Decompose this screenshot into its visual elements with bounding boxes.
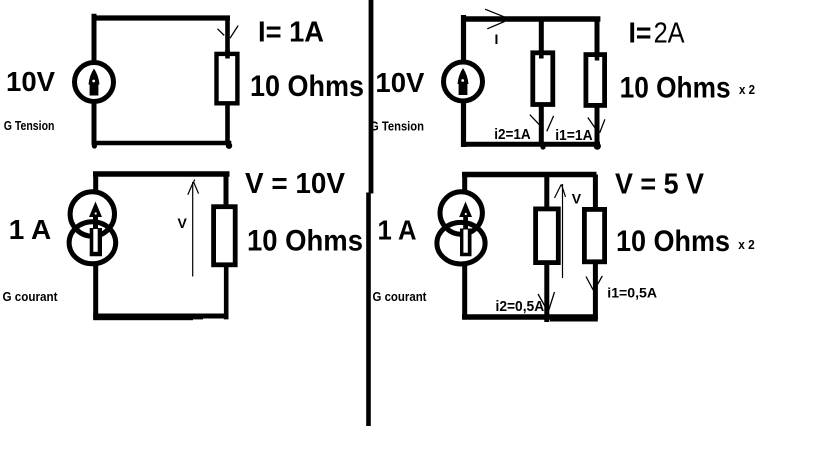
wire bottom left segment (BL loop) [93,314,228,319]
svg-text:V = 5 V: V = 5 V [615,169,705,201]
wire left lower (BL, source to bottom) [93,262,98,318]
wire bottom (TL loop) [92,141,232,146]
wire right branch lower (TR, R1 to bottom) [595,104,600,146]
svg-text:i2=0,5A: i2=0,5A [496,299,545,315]
wire bottom step bump (BL) [193,314,203,319]
current source I1 arrow [89,202,102,257]
resistor R1 (BR right) body [584,209,604,261]
svg-text:G courant: G courant [373,289,428,304]
svg-text:i1=1A: i1=1A [555,128,593,144]
wire right lower (TL, resistor to bottom) [225,104,230,145]
junction dot bottom-right (TL) [226,143,232,149]
current source I2 (1 A) upper circle [440,192,482,234]
wire top (BL loop) [93,171,230,177]
svg-text:I= 1A: I= 1A [258,17,324,49]
wire left upper (TR, corner to source) [461,15,466,62]
svg-text:10 Ohms: 10 Ohms [616,225,730,258]
wire right upper (BL, corner to resistor) [224,174,229,209]
current arrow i2 (TR, at R2 bottom) [530,115,554,132]
svg-text:10V: 10V [6,66,55,97]
svg-text:x 2: x 2 [738,238,755,252]
svg-text:I: I [495,31,499,47]
svg-text:10 Ohms: 10 Ohms [247,225,363,258]
voltage source V2 (10V) circle [444,62,483,101]
wire left upper (TL, top corner to source) [92,14,97,63]
svg-text:1 A: 1 A [378,215,417,246]
resistor R1 (TR) top lead notch [595,52,600,61]
voltage arrow head (BL) [188,180,199,195]
voltage arrow V (BR, thin vertical) [562,184,564,278]
wire top (TR loop) [461,16,600,21]
wire middle branch lower (TR, R2 to bottom) [539,104,544,146]
svg-text:G Tension: G Tension [4,118,55,133]
resistor R1 (TR right) body [586,55,605,106]
current source I1 (1 A) upper circle [70,192,114,236]
wire left lower (TR, source to bottom) [461,101,466,147]
wire right branch lower (BR, R1 to bottom) [593,263,598,319]
divider line lower segment [366,193,371,427]
current arrow i1 (TR, at R1 bottom) [588,118,605,133]
current source I2 (1 A) lower circle [437,222,485,264]
wire bottom lower jog (BR) [550,317,598,322]
resistor R (TL 10 Ohms) body [217,54,238,103]
resistor R2 (BR middle) body [536,209,559,263]
current arrow i2 (BR, at R2 bottom) [538,292,555,310]
voltage source V2 arrow white speck [461,79,464,82]
resistor R (TL) top lead notch [225,50,230,59]
wire bottom right segment (BL loop, slight step) [93,318,193,320]
voltage source V1 (10V) circle [75,63,114,102]
wire bottom (TR loop) [461,142,600,147]
svg-text:2A: 2A [654,17,686,49]
svg-text:V: V [572,191,582,207]
svg-text:x 2: x 2 [739,83,755,97]
junction dot bottom-left (TL) [92,143,97,148]
svg-text:i1=0,5A: i1=0,5A [607,285,657,301]
voltage source V2 arrow [458,68,469,95]
wire right lower (BL, resistor to bottom) [224,264,229,319]
junction dot bottom middle (TR) [540,144,545,149]
wire middle branch upper (BR, to resistor R2) [544,175,549,211]
svg-text:i2=1A: i2=1A [494,127,531,143]
svg-text:V = 10V: V = 10V [245,168,346,200]
voltage source V1 arrow white speck [92,80,95,83]
current source I2 arrow [459,202,472,257]
current source I1 (1 A) lower circle [69,222,116,264]
wire bottom (BR loop) [462,314,598,320]
voltage arrow V (BL, thin vertical) [192,182,194,277]
wire right branch upper (BR, to resistor R1) [593,175,598,212]
divider line between left and right halves [369,0,374,194]
svg-text:10V: 10V [375,67,424,98]
current arrow I on top wire (TR) [485,9,506,29]
resistor R2 (TR middle) body [533,53,553,105]
wire middle branch upper (TR, to resistor R2) [539,19,544,58]
junction dot bottom right (TR) [594,143,601,150]
wire right upper (TL, corner to resistor) [225,18,230,58]
wire left upper (BL, corner to source) [93,172,98,193]
resistor R2 (TR) top lead notch [539,50,544,59]
current direction arrow into resistor (TL) [218,26,239,39]
svg-text:10 Ohms: 10 Ohms [250,70,364,103]
wire left lower (TL, source to bottom) [92,101,97,145]
svg-text:G courant: G courant [3,289,59,304]
wire top (TL loop) [92,15,230,20]
svg-text:I=: I= [629,17,652,49]
voltage source V1 arrow [89,69,100,96]
voltage arrow head (BR) [555,185,566,199]
wire right branch upper (TR, to resistor R1) [595,19,600,60]
resistor R (BL 10 Ohms) body [214,207,236,265]
wire middle branch lower (BR, R2 through bottom wire) [544,262,549,322]
wire left upper (BR, corner to source) [462,172,467,191]
current source I1 arrow white slot [93,229,97,252]
current arrow i1 (BR, at R1 bottom) [586,276,602,291]
svg-text:G Tension: G Tension [370,119,424,134]
wire left lower (BR, source to bottom) [462,264,467,319]
svg-text:1 A: 1 A [9,214,52,245]
wire top (BR loop) [462,172,597,178]
svg-text:V: V [178,215,188,231]
svg-text:10 Ohms: 10 Ohms [620,72,731,105]
current source I2 arrow white slot [463,230,467,253]
